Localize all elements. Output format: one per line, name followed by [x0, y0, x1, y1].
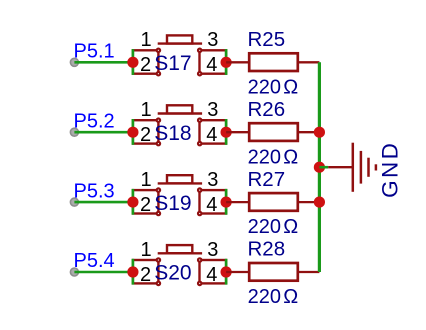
svg-text:220: 220: [248, 146, 281, 168]
svg-text:P5.1: P5.1: [74, 41, 115, 63]
svg-text:R27: R27: [248, 168, 286, 191]
svg-text:GND: GND: [378, 141, 403, 198]
svg-text:Ω: Ω: [283, 286, 298, 308]
svg-text:R25: R25: [248, 28, 286, 51]
svg-text:R26: R26: [248, 98, 286, 121]
svg-text:R28: R28: [248, 238, 286, 261]
svg-text:P5.3: P5.3: [74, 180, 115, 202]
svg-text:220: 220: [248, 76, 281, 98]
svg-text:Ω: Ω: [283, 216, 298, 238]
svg-text:Ω: Ω: [283, 146, 298, 168]
svg-text:S20: S20: [154, 262, 191, 285]
svg-text:S18: S18: [154, 122, 191, 145]
svg-text:S17: S17: [154, 52, 191, 75]
svg-text:P5.2: P5.2: [74, 110, 115, 132]
svg-text:220: 220: [248, 216, 281, 238]
svg-text:S19: S19: [154, 192, 191, 215]
svg-text:P5.4: P5.4: [74, 250, 115, 272]
svg-text:220: 220: [248, 286, 281, 308]
svg-text:Ω: Ω: [283, 76, 298, 98]
